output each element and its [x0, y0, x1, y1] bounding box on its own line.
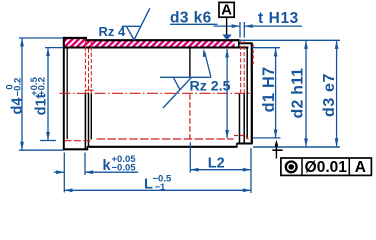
d1 H7 label	[260, 67, 278, 113]
svg-text:d3 e7: d3 e7	[321, 73, 338, 117]
datum A box	[219, 2, 234, 17]
counterbore hidden line bottom left	[65, 140, 92, 142]
datum triangle	[222, 35, 231, 41]
svg-text:+0.2: +0.2	[37, 77, 48, 96]
flange step top	[85, 37, 87, 41]
d1 dimension line right	[275, 48, 277, 138]
right segment top edge	[239, 42, 253, 44]
svg-text:d1 H7: d1 H7	[260, 67, 278, 113]
Rz 4 symbol	[122, 8, 150, 40]
k dimension line	[54, 171, 64, 173]
hidden chamfer right face	[252, 44, 254, 66]
d1 inner dimension line	[226, 49, 228, 138]
hidden edge x190 lower	[189, 94, 191, 139]
FCF box	[281, 158, 372, 175]
d1t extension top	[45, 47, 63, 49]
right face	[251, 43, 253, 143]
centerline	[60, 92, 252, 94]
svg-text:t H13: t H13	[258, 10, 299, 27]
step edge below center x86	[84, 93, 86, 149]
hidden slot edge x240.8	[240, 40, 242, 93]
bore hidden line bottom	[97, 138, 234, 140]
feature edge x190 upper	[189, 49, 191, 77]
d1t label	[29, 76, 50, 115]
d3 e7 label	[321, 73, 338, 117]
svg-text:−0.2: −0.2	[12, 78, 23, 97]
body bottom edge	[88, 146, 237, 148]
hidden slot edge x244.3	[243, 40, 245, 93]
svg-text:L2: L2	[208, 156, 225, 172]
flange step bottom	[87, 146, 89, 150]
step bottom right	[236, 143, 238, 148]
d3 dimension line	[336, 40, 338, 146]
flange bottom edge	[63, 148, 88, 150]
svg-text:d2 h11: d2 h11	[289, 68, 306, 119]
L dimension line	[64, 189, 251, 191]
hidden edge x86 upper	[84, 40, 86, 93]
hidden line right end	[234, 136, 250, 141]
k extension left	[63, 153, 65, 193]
step edge below center x91	[90, 93, 92, 139]
L2 L extension right	[250, 148, 252, 193]
d4 dimension line	[21, 38, 23, 150]
hatch end wall	[238, 39, 240, 48]
svg-text:Rz 2.5: Rz 2.5	[190, 78, 231, 94]
svg-text:d4: d4	[10, 98, 26, 115]
d1 extension bottom right	[253, 137, 281, 139]
Rz 2.5 symbol	[160, 76, 211, 78]
body top edge	[86, 39, 239, 41]
d2 d3 extension bottom	[253, 146, 340, 148]
d4 extension bottom	[19, 149, 63, 151]
hatch fill flange section	[64, 39, 86, 48]
bore top edge (hatch bottom)	[63, 47, 248, 49]
svg-text:−1: −1	[155, 182, 167, 193]
slot edge below center x240	[239, 93, 241, 144]
L2 dimension line	[190, 169, 251, 171]
hidden edge x91.2 upper	[90, 40, 92, 93]
svg-text:A: A	[221, 2, 232, 19]
slot edge below center x245	[243, 93, 245, 144]
right segment bottom edge	[237, 143, 253, 145]
d1t dimension line	[47, 48, 49, 141]
hidden tick x85-93	[85, 89, 94, 91]
k extension right	[84, 153, 86, 176]
d2 dimension line	[305, 40, 307, 146]
hidden edge x88.8 upper	[88, 49, 90, 93]
L2 extension left	[189, 142, 191, 172]
d4 label	[5, 78, 26, 115]
left bore chamfer line	[66, 49, 68, 140]
svg-text:A: A	[355, 159, 366, 176]
Rz 2.5 leader arrow	[205, 52, 211, 77]
hatch fill body section	[87, 41, 235, 47]
step edge below center x88.5	[88, 93, 90, 147]
t dimension arrows	[214, 25, 240, 27]
svg-text:k: k	[103, 158, 112, 174]
d2 h11 label	[289, 68, 306, 119]
FCF leader	[275, 145, 277, 159]
d4 extension top	[19, 37, 63, 39]
concentricity symbol	[286, 162, 297, 173]
d1 extension top right	[252, 47, 280, 49]
d2 d3 extension top	[239, 39, 340, 41]
svg-text:−0.05: −0.05	[112, 162, 137, 173]
right bore chamfer line	[246, 49, 248, 140]
datum stem	[226, 17, 228, 34]
left face	[63, 37, 65, 150]
flange top edge	[63, 37, 87, 39]
svg-text:Ø0.01: Ø0.01	[305, 159, 348, 176]
d1t extension bottom	[40, 140, 56, 142]
t extension lines	[240, 22, 244, 38]
